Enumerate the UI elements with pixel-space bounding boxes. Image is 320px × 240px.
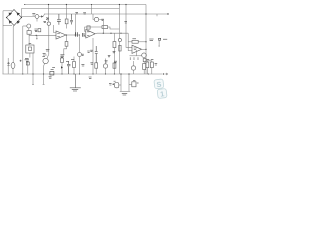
node dots H4 row	[22, 73, 149, 74]
wire x8 branch	[7, 58, 9, 74]
wire x22.8 drop	[22, 26, 24, 74]
label D7	[43, 21, 46, 22]
label Q7 emitter marks	[81, 65, 84, 66]
wire bottom bar	[120, 90, 130, 92]
label R15	[46, 50, 50, 51]
diode D8 on H4	[50, 69, 54, 75]
node dot 121	[120, 33, 121, 34]
wire U3 output	[142, 48, 146, 50]
wire U2 feedback	[85, 27, 102, 32]
diode D9 circle	[118, 38, 121, 41]
bridge rectifier BR1	[7, 10, 22, 26]
wire x119 drop	[118, 5, 120, 75]
node dot H1 x66	[66, 4, 67, 5]
resistor R11	[73, 62, 76, 68]
capacitor C7	[95, 46, 98, 63]
transistor Q9 circle	[131, 66, 135, 70]
node dot H1 x126	[125, 4, 126, 5]
wire Q9 leads	[133, 61, 135, 74]
wire H3 third bus	[44, 13, 168, 15]
arrow mark	[166, 73, 168, 75]
wire x159 stub	[158, 40, 160, 45]
label R12	[90, 63, 93, 64]
label Q8	[108, 55, 111, 56]
wire bridge to H2	[21, 9, 23, 17]
stub below H4 x43.6	[43, 74, 45, 85]
wire Q8 leads	[105, 59, 107, 75]
wire x62 branch	[61, 57, 63, 58]
wire x114 drop	[113, 33, 115, 74]
label D8 below	[49, 77, 52, 78]
node dot H1 start	[24, 4, 25, 5]
wire U1 input2	[54, 25, 57, 33]
wire H1 top bus	[25, 4, 147, 6]
wire right pair top	[146, 60, 152, 62]
wire D5 to H3	[43, 14, 44, 17]
wire Q6 left lead	[93, 14, 94, 20]
node dot H3 x146	[145, 13, 146, 14]
labels right top	[149, 38, 167, 40]
diode D bridge marks	[9, 12, 20, 24]
label R13 value	[147, 58, 154, 60]
resistor R17	[119, 45, 121, 51]
node dot bridge R	[21, 17, 22, 18]
wire U1 output	[66, 34, 80, 36]
label C1 +	[7, 62, 10, 66]
box IC2	[38, 29, 41, 32]
resistor R10	[61, 58, 64, 63]
op-amp U3	[132, 45, 142, 53]
label x125	[124, 22, 127, 23]
label 5V6	[122, 94, 127, 95]
resistor R9 feedback	[132, 40, 138, 43]
label D2	[83, 13, 86, 14]
node dot Q7 top	[79, 34, 80, 35]
P1 inner mark	[28, 47, 31, 50]
node dot 159	[159, 45, 160, 46]
wire Q7 leads	[79, 35, 81, 74]
label R8	[113, 51, 116, 52]
zener D6	[46, 17, 48, 20]
node dot H4 x129	[128, 73, 129, 74]
resistor R13	[143, 64, 146, 70]
resistor R8	[113, 42, 116, 48]
label Q6	[101, 19, 104, 20]
transistor Q10 circle	[142, 53, 147, 58]
wire H4 bottom bus	[3, 73, 159, 75]
node dot H1 x119	[119, 4, 120, 5]
node dot 75	[75, 34, 76, 35]
wire R7 right	[108, 27, 120, 29]
wire Q5 emitter to H4	[44, 63, 45, 74]
wire x75 from H3	[74, 14, 76, 35]
capacitor C10 series	[83, 33, 85, 37]
label R9 value	[132, 38, 136, 40]
transistor Q11 marks	[60, 55, 64, 56]
op-amp U1	[56, 31, 66, 39]
box K1b	[143, 59, 146, 62]
wire x121 drop	[120, 74, 122, 91]
transistor Q3 circle	[27, 24, 31, 28]
label Q8 top	[105, 61, 108, 62]
wire x128 to U3	[128, 33, 132, 50]
wire Q2 vertical	[48, 5, 50, 55]
label C8 left	[109, 84, 112, 85]
resistor R19	[113, 63, 116, 68]
op-amp U2	[86, 30, 95, 39]
wire R11 leads	[73, 57, 75, 75]
wire AC in1	[3, 10, 12, 12]
label GND	[72, 90, 78, 91]
wire H4 arrow end	[158, 73, 166, 75]
diode D5	[41, 15, 43, 17]
transistor Q5 circle	[43, 58, 48, 63]
wire R2 vertical	[65, 5, 67, 29]
capacitor C6	[67, 61, 70, 74]
wire Q3 down	[28, 28, 30, 31]
stub below H4 x33	[32, 74, 34, 85]
resistor R2	[65, 19, 68, 24]
watermark logo S	[154, 79, 164, 89]
node dot 37	[36, 38, 37, 39]
capacitor C11 feedback	[87, 26, 90, 29]
transistor Q8 circle	[103, 64, 107, 68]
label R11 value	[71, 59, 74, 61]
label R19	[114, 61, 117, 62]
resistor R1	[27, 31, 31, 35]
resistor R12	[95, 63, 98, 68]
wire R14 leads	[146, 61, 148, 74]
wire x92 H2-H3	[91, 5, 93, 15]
transistor Q4 cluster	[25, 58, 29, 61]
resistor R7	[102, 26, 108, 29]
diode D10	[61, 66, 63, 68]
label U1 inner	[57, 33, 60, 36]
label C7 value	[90, 50, 93, 51]
regulator Q1 circle	[35, 15, 39, 19]
watermark logo 1	[157, 88, 167, 98]
wire Q4 to H4	[27, 62, 29, 75]
wire R9 right	[138, 41, 146, 43]
capacitor C9 box	[26, 62, 29, 65]
zener D11	[132, 81, 136, 87]
node dot 146 out	[145, 49, 146, 50]
capacitor C5 series	[76, 32, 78, 37]
label D11 value	[137, 82, 139, 84]
wire C1 to H4	[12, 68, 14, 74]
wire y55.8	[130, 55, 143, 57]
wire R13 leads	[143, 62, 145, 75]
wire x129 drop	[128, 74, 130, 91]
node dot H1 x91	[91, 4, 92, 5]
wire right drop x146	[145, 5, 147, 75]
capacitor C3	[57, 14, 61, 25]
capacitor C1 electrolytic	[11, 63, 15, 69]
label C7 plus	[87, 51, 90, 52]
label U3 inner	[134, 48, 137, 49]
wire D11 stub	[129, 83, 132, 85]
tick H3 x157	[156, 14, 158, 16]
wire left rail x3	[2, 11, 4, 74]
wire P1 wiper down	[32, 53, 34, 74]
node dot 146 fb	[145, 41, 146, 42]
node dot bridge L	[6, 17, 7, 18]
wire bridge out y16.5	[22, 16, 36, 19]
wire Q3 left lead	[23, 25, 27, 27]
label D8 value	[52, 67, 55, 69]
wire Q2 to Q5	[47, 54, 49, 58]
node dot arrow	[163, 73, 164, 74]
wire U1 fb down	[66, 35, 68, 42]
ground GND	[70, 74, 81, 88]
wire bridge bottom drop x13	[12, 26, 15, 63]
label Q7	[82, 54, 84, 55]
node dot H3 end	[167, 13, 168, 14]
wire C8 stub	[119, 84, 121, 86]
label C8 plus	[112, 83, 114, 85]
label IC2	[34, 29, 37, 32]
wire Q1 out	[39, 16, 41, 18]
wire P1 down	[29, 53, 31, 58]
resistor R14	[146, 62, 149, 68]
capacitor C2 + mark	[20, 60, 22, 62]
wire Q6 right lead	[99, 20, 104, 34]
label P1	[29, 43, 32, 45]
wire Q1 base stub	[36, 18, 38, 21]
capacitor C8	[114, 81, 119, 88]
wire R9 left	[128, 41, 132, 43]
node dot 103	[103, 33, 104, 34]
label below H4 x90	[89, 77, 92, 78]
wire R1 to pot	[28, 34, 30, 45]
node dot 36	[36, 35, 37, 36]
capacitor C4	[70, 14, 73, 25]
wire U2 output line	[95, 32, 128, 35]
label U2 inner	[87, 32, 89, 36]
label Q1	[32, 14, 35, 15]
label R16 value	[155, 64, 158, 65]
node dot 111	[110, 33, 111, 34]
potentiometer P1 box	[26, 45, 34, 53]
wire stub 37 down	[36, 35, 38, 38]
wire AC in2	[3, 24, 12, 26]
wire x126 drop	[126, 5, 132, 48]
node dot U1 out	[66, 34, 67, 35]
wire R10 down	[61, 63, 63, 75]
wire x136.7 stub	[136, 50, 138, 56]
label C6 value	[66, 61, 68, 63]
wire H2 second bus	[22, 8, 120, 10]
label R10 value	[60, 56, 63, 57]
wire R18 to Q11	[64, 46, 67, 54]
wire R16 leads	[151, 61, 153, 74]
wire R12 down	[95, 68, 97, 74]
label D1	[75, 13, 78, 14]
node dot H4 x121	[120, 73, 121, 74]
node dot H1 x48	[48, 4, 49, 5]
diode D12 marks	[42, 54, 46, 57]
resistor R16	[150, 62, 153, 68]
wire op1 input line	[29, 34, 56, 36]
transistor Q7 circle	[78, 53, 82, 57]
wire x93 drop	[92, 38, 94, 74]
transistor Q6 circle	[94, 17, 98, 21]
wire C10 to U2	[84, 35, 85, 36]
resistor R18	[65, 42, 68, 47]
pin ticks U3	[130, 57, 138, 60]
transistor Q2 circle	[47, 22, 50, 25]
